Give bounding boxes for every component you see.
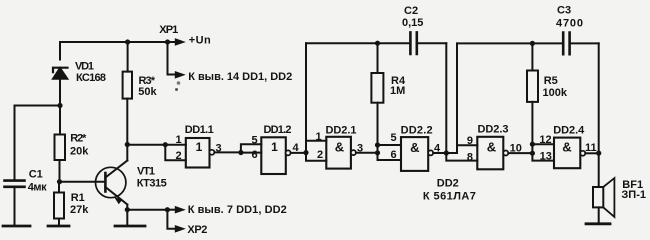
resistor R3 [123,42,132,145]
svg-text:DD2: DD2 [437,178,459,190]
pin bubble DD1.1 output [209,150,214,155]
svg-text:3: 3 [357,142,363,154]
node DD1.1 input split [163,142,168,147]
node R4 top [375,41,380,46]
svg-text:1: 1 [196,140,203,154]
svg-text:1: 1 [271,140,278,154]
gate DD1.2 [261,137,286,174]
resistor R2 [55,135,66,161]
svg-text:VD1: VD1 [75,61,94,73]
wire DD1.2 pin 5 loop [241,144,261,152]
resistor R4 [371,43,401,160]
pin bubble DD2.1 output [351,150,356,155]
svg-text:11: 11 [585,142,597,154]
svg-text:&: & [562,140,571,155]
svg-text:C1: C1 [29,169,43,181]
svg-text:VT1: VT1 [137,166,155,178]
ground bar under speaker [586,222,610,225]
wire DD2.3 out to R5 vertical [508,152,532,154]
pin numbers [175,131,596,163]
wire C2 right vertical [445,43,447,153]
gate DD2.4 [554,138,580,169]
svg-text:&: & [410,140,419,155]
wire R2 top lead [59,106,61,135]
node DD2.1 chain join [303,150,308,155]
svg-text:&: & [335,139,344,154]
wire XP2 arrow [167,210,184,232]
ground bar under VT1 emitter [115,225,145,228]
svg-text:8: 8 [467,151,473,163]
wire DD2.3 pin 9 [457,144,477,146]
svg-text:DD1.2: DD1.2 [264,124,292,136]
svg-text:DD2.2: DD2.2 [401,125,433,137]
node R5 top [530,41,535,46]
svg-text:C3: C3 [557,5,571,17]
svg-text:4мк: 4мк [28,182,47,194]
node VD1 anode junction [57,103,62,108]
gate DD2.3 [477,137,503,170]
svg-text:1: 1 [175,134,181,146]
gate DD2.2 [401,137,428,171]
svg-text:DD2.4: DD2.4 [553,125,585,137]
svg-text:&: & [487,139,496,154]
gate inner symbols [196,139,572,155]
svg-text:4700: 4700 [556,18,583,30]
svg-text:DD1.1: DD1.1 [185,124,214,136]
svg-text:ХР1: ХР1 [159,24,178,36]
svg-text:3: 3 [215,142,221,154]
wire collector to DD1.1 [127,144,165,146]
node DD1.2 input split [238,150,243,155]
wire DD1.2 pin 6 [241,152,261,154]
wire DD2.2 pin 5 [378,144,402,146]
svg-text:2: 2 [317,149,323,161]
wire XP1 arrow [168,39,185,45]
svg-text:R5: R5 [544,75,558,87]
wire C2 left vertical and DD2.1 pin 2 [306,43,326,161]
pin bubble DD1.2 output [286,150,291,155]
wire DD2.4 pin 12 [532,143,554,145]
node DD2.2 pin5 branch [375,142,380,147]
wire R2 bottom lead [59,160,61,182]
gate DD2.1 [326,137,351,169]
wire junction to C1 branch [15,106,61,181]
wire C3 right vertical [598,43,600,153]
wire chain link to C3 vertical [446,152,457,154]
wire DD2.4 out to speaker [585,152,598,154]
svg-text:0,15: 0,15 [402,17,423,29]
svg-text:К выв. 14 DD1, DD2: К выв. 14 DD1, DD2 [188,71,292,83]
wire emitter vertical [126,205,128,226]
svg-text:4: 4 [434,142,441,154]
svg-text:12: 12 [539,134,551,146]
wire DD1.1 pin 2 loop [165,145,186,161]
capacitor C3 [563,33,599,55]
svg-text:R2*: R2* [70,133,87,145]
svg-text:9: 9 [467,135,473,147]
svg-text:1M: 1M [390,85,405,97]
ground bar under C1 [3,225,30,228]
node DD2.2 chain join [375,150,380,155]
node speaker junction [596,151,601,156]
svg-text:13: 13 [540,150,552,162]
speaker BF1 [593,153,614,223]
ground bar under R1 [48,225,69,228]
svg-text:R1: R1 [71,192,85,204]
svg-text:+Un: +Un [189,35,211,47]
svg-text:К выв. 7 DD1, DD2: К выв. 7 DD1, DD2 [188,204,287,216]
svg-text:5: 5 [390,132,396,144]
wire C3 left vertical [456,43,458,153]
svg-text:DD2.1: DD2.1 [326,125,357,137]
svg-text:КТ315: КТ315 [137,178,167,190]
transistor Q1 VT1 [96,161,128,205]
wire top rail [60,41,170,43]
wire emitter to arrows [127,209,167,211]
capacitor C1 [5,181,25,225]
pin bubble DD2.2 output [428,150,433,155]
node XP1 junction [165,39,170,44]
svg-text:ЗП-1: ЗП-1 [621,189,646,201]
resistor R5 [527,43,554,160]
svg-text:10: 10 [510,143,522,155]
capacitor C2 [410,32,446,54]
zener diode VD1 [53,68,68,106]
svg-text:DD2.3: DD2.3 [478,124,509,136]
node R3 top [125,39,130,44]
svg-text:20k: 20k [70,146,89,158]
wire DD1.2 out to DD2.1 [291,152,306,154]
svg-text:5: 5 [251,134,257,146]
wire DD2.3 pin 8 loop [446,153,477,161]
resistor R1 [54,182,64,225]
wire DD1.1 pin 1 [165,144,186,146]
node base junction [57,179,62,184]
svg-text:КС168: КС168 [76,72,106,84]
wire base wire [60,181,106,183]
svg-text:6: 6 [251,149,257,161]
wire DD2.1 out to R4 vertical [356,152,378,154]
node emitter junction [125,207,130,212]
svg-text:27k: 27k [70,204,89,216]
wire DD2.2 out to DD2.3 [433,152,446,154]
svg-text:К 561ЛА7: К 561ЛА7 [423,191,476,203]
wire C3 top line [457,42,563,44]
wire DD1.1 out to DD1.2 [214,151,241,153]
node XP2 junction [165,207,170,212]
wire C2 top line [306,42,410,44]
wire to pin 14 arrow [168,42,185,78]
node DD2.3 chain join [444,150,449,155]
stray speck [175,88,178,91]
node collector junction [125,142,130,147]
wire to pin 7 arrow [167,207,184,213]
pin bubble DD2.4 output [580,151,585,156]
wire DD2.1 pin 1 [306,140,326,142]
svg-text:100k: 100k [543,87,568,99]
svg-text:1: 1 [315,131,321,143]
wire VD1 top lead [59,42,61,60]
node DD2.4 pin12 branch [530,142,535,147]
pin bubble DD2.3 output [503,151,508,156]
gate DD1.1 [186,138,210,168]
svg-text:4: 4 [292,142,299,154]
node DD2.4 chain join [530,151,535,156]
wire collector vertical [126,145,128,161]
svg-text:50k: 50k [138,86,157,98]
svg-text:ХР2: ХР2 [187,224,207,236]
svg-text:C2: C2 [404,5,418,17]
svg-text:2: 2 [175,150,181,162]
svg-text:6: 6 [390,149,396,161]
